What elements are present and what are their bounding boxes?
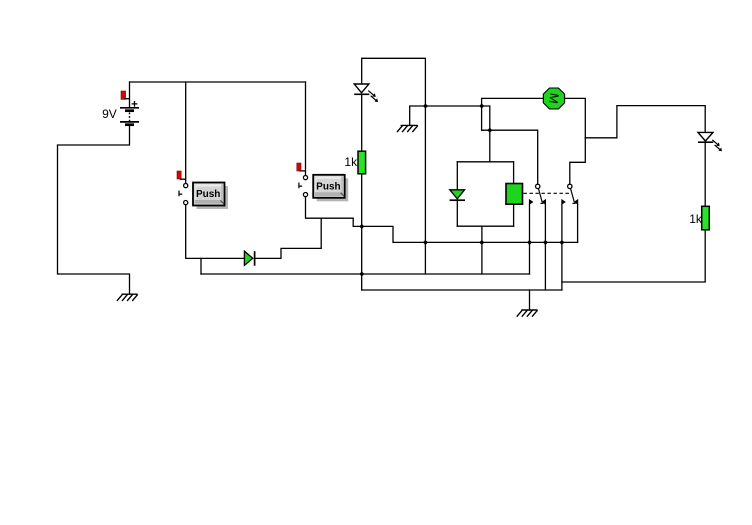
svg-text:1k: 1k	[689, 212, 703, 226]
junction mark at contact rail crossing V1	[527, 240, 532, 245]
relay contact A pivot	[536, 184, 540, 188]
wire relay bottom rail	[457, 225, 513, 227]
wire contact A-left drop V1	[529, 205, 531, 275]
battery B1 9V	[102, 101, 139, 125]
wire LED1 to R1	[361, 94, 363, 151]
ground symbol G1 (battery)	[117, 294, 138, 301]
wire LED1 top loop to V425	[362, 58, 426, 274]
wire battery negative lead	[58, 125, 130, 294]
wire contact B-left drop V3	[561, 205, 563, 291]
junction mark at mid rail crossing R1 drop	[359, 271, 364, 276]
probe marker at battery	[121, 91, 130, 99]
junction mark at ground rail crossing V425	[423, 103, 428, 108]
wire R1 bottom down to low rail	[361, 174, 363, 290]
relay actuating dashed link	[524, 192, 571, 194]
relay contact A-left terminal	[529, 199, 534, 205]
diode D1	[244, 251, 254, 266]
relay coil K1	[506, 184, 523, 205]
relay contact B-left terminal	[561, 199, 566, 205]
wire LED2 branch from motor lead	[585, 106, 705, 138]
wire relay top rail	[457, 161, 513, 163]
wire R2 bottom to switch B net	[562, 230, 705, 282]
push switch SW1 contacts	[179, 184, 188, 205]
relay contact B blade	[571, 188, 576, 203]
relay contact B pivot	[568, 184, 572, 188]
wire motor left lead	[482, 98, 544, 130]
wire diode net down to mid rail	[200, 258, 202, 274]
wire contact A-right drop V2	[544, 205, 546, 291]
wire push2 drop from top rail	[305, 82, 307, 175]
wire low rail y290	[362, 289, 562, 291]
wire push2 bottom run to relay contact V4	[306, 197, 578, 243]
junction mark at contact rail crossing relay tap	[479, 240, 484, 245]
wire switch A common feed	[482, 130, 538, 184]
ground symbol G3 (relay)	[517, 310, 538, 317]
push button SW1	[193, 183, 228, 210]
wire D1 cathode to push2 net	[255, 218, 322, 258]
junction mark at contact rail crossing V3	[559, 240, 564, 245]
resistor R2 1k	[689, 206, 709, 230]
motor M1	[543, 88, 564, 109]
svg-text:9V: 9V	[102, 107, 117, 121]
wire ground stub at low rail	[529, 290, 531, 310]
junction mark at push2 run crossing R1 drop	[359, 224, 364, 229]
LED D2 (left)	[354, 84, 378, 102]
svg-text:1k: 1k	[344, 155, 358, 169]
probe marker at SW1	[177, 171, 186, 179]
push button SW2	[313, 175, 348, 202]
wire relay diode leg top	[456, 162, 458, 190]
wire ground rail y106	[410, 106, 490, 162]
resistor R1 1k	[344, 151, 365, 174]
wire contact B-right drop V4	[577, 205, 579, 243]
junction mark at switch feed crossing relay feed	[487, 128, 492, 133]
junction mark at contact rail crossing V2	[543, 240, 548, 245]
svg-text:Push: Push	[316, 182, 340, 193]
wire relay bottom tap down to mid rail	[481, 226, 483, 274]
LED D4 (right)	[698, 132, 722, 151]
wire relay coil top lead	[513, 162, 515, 184]
relay protection diode D3	[450, 190, 465, 200]
wire push1 bottom to diode D1	[186, 205, 245, 259]
wire LED2 to R2	[704, 142, 706, 206]
wire relay diode leg bottom	[456, 200, 458, 226]
wire motor right lead	[565, 98, 586, 184]
probe marker at SW2	[297, 163, 306, 171]
wire top rail from battery to push2 drop	[130, 81, 306, 83]
wire mid rail y274	[201, 273, 530, 275]
wire push1 drop from top rail	[185, 82, 187, 183]
ground symbol G2 (mid)	[397, 125, 418, 132]
junction mark at ground rail crossing motor drop	[479, 103, 484, 108]
push switch SW2 contacts	[299, 176, 308, 197]
wire relay coil bottom lead	[513, 204, 515, 226]
svg-text:Push: Push	[196, 189, 220, 200]
relay contact A blade	[538, 188, 543, 203]
relay contact A-right terminal	[542, 199, 546, 205]
relay contact B-right terminal	[574, 199, 578, 205]
junction mark at contact rail crossing V425	[423, 240, 428, 245]
wire battery positive lead	[129, 82, 131, 108]
